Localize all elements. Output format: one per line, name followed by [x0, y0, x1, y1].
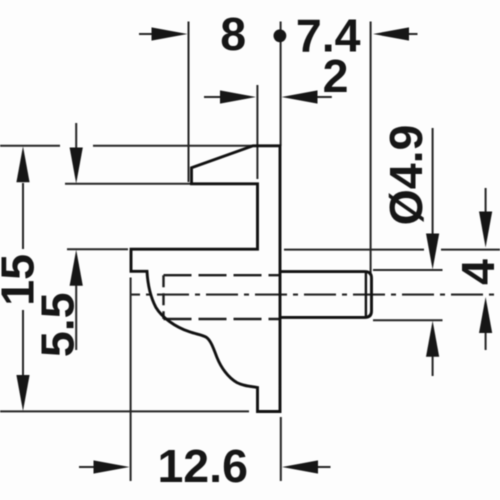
svg-text:5.5: 5.5	[32, 292, 84, 357]
svg-text:2: 2	[323, 50, 349, 102]
svg-text:8: 8	[220, 8, 246, 60]
svg-text:12.6: 12.6	[157, 440, 248, 492]
svg-text:4: 4	[452, 259, 500, 285]
svg-text:Ø4.9: Ø4.9	[380, 125, 432, 226]
